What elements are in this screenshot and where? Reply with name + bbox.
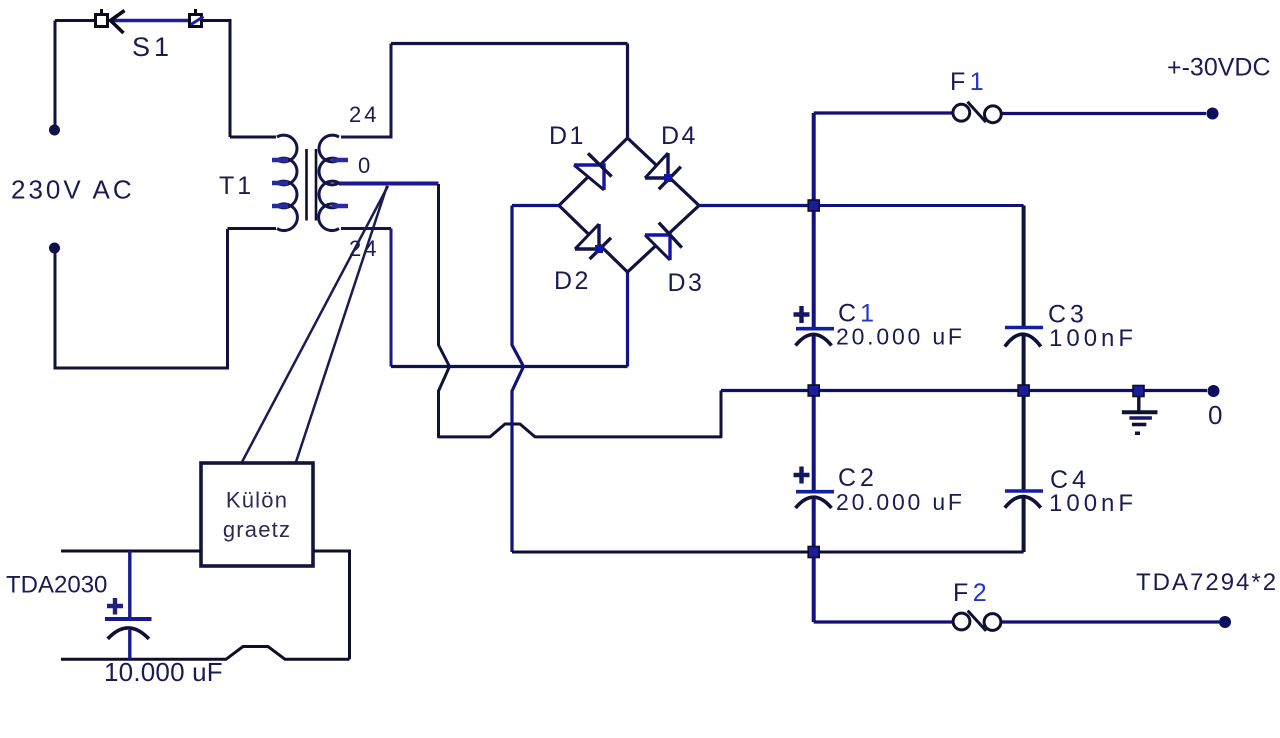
svg-text:D2: D2 (554, 267, 591, 295)
svg-text:+-30VDC: +-30VDC (1167, 54, 1271, 82)
svg-text:S1: S1 (132, 32, 173, 62)
svg-text:0: 0 (1208, 400, 1222, 430)
svg-text:100nF: 100nF (1049, 325, 1137, 352)
svg-text:F1: F1 (950, 68, 988, 96)
svg-text:graetz: graetz (223, 517, 291, 542)
svg-text:D4: D4 (661, 122, 698, 150)
svg-text:C2: C2 (838, 464, 878, 492)
svg-text:D1: D1 (549, 122, 586, 150)
svg-text:20.000 uF: 20.000 uF (836, 324, 965, 350)
svg-text:24: 24 (349, 102, 379, 127)
svg-text:230V AC: 230V AC (11, 175, 135, 205)
svg-text:T1: T1 (219, 172, 254, 200)
svg-text:24: 24 (349, 236, 379, 261)
svg-text:Külön: Külön (226, 488, 288, 513)
svg-text:20.000 uF: 20.000 uF (836, 489, 965, 515)
svg-text:F2: F2 (953, 579, 991, 607)
svg-text:TDA7294*2: TDA7294*2 (1136, 569, 1278, 596)
svg-text:10.000 uF: 10.000 uF (104, 657, 223, 687)
svg-text:0: 0 (358, 153, 370, 178)
svg-text:D3: D3 (668, 269, 705, 297)
svg-text:100nF: 100nF (1049, 490, 1137, 517)
svg-text:TDA2030: TDA2030 (6, 572, 107, 599)
